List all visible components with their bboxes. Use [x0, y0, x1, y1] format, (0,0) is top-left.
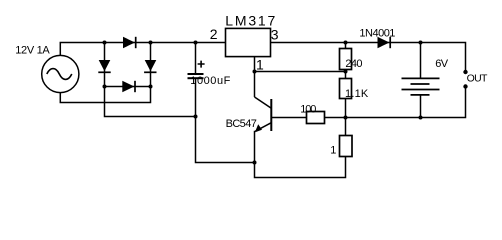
svg-text:240: 240: [345, 58, 362, 70]
wire battery bottom branch: [420, 95, 422, 118]
AC source V1 12V 1A: [42, 55, 79, 92]
wire capacitor branch lower to emitter node: [196, 78, 255, 162]
wire top rail from AC source to OUT+: [60, 43, 465, 73]
diode D4 bridge middle: [122, 81, 135, 92]
node junction emitter: [253, 161, 257, 165]
node junction top rail bridge left: [103, 41, 107, 45]
terminal OUT positive: [463, 70, 467, 74]
svg-text:100: 100: [300, 103, 316, 115]
wire base rail and bottom right rail to OUT-: [271, 87, 465, 118]
wire bridge right column: [150, 43, 152, 87]
battery B1 6V: [402, 78, 440, 95]
node junction bridge middle left: [103, 85, 107, 89]
wire bridge left column and negative rail to capacitor node: [105, 43, 196, 117]
capacitor C1 1000uF: [188, 61, 205, 79]
resistor R100: [307, 112, 325, 124]
wire ADJ node to resistor column: [255, 71, 346, 73]
svg-text:1N4001: 1N4001: [359, 28, 395, 40]
svg-text:BC547: BC547: [226, 118, 257, 130]
wire battery top branch: [420, 43, 422, 79]
node junction negative rail capacitor: [194, 115, 198, 119]
svg-text:1.1K: 1.1K: [345, 88, 369, 100]
svg-text:3: 3: [271, 26, 279, 42]
diode D2 bridge left: [98, 60, 110, 72]
wire emitter to R1 bottom: [255, 131, 346, 178]
resistor R1.1K: [340, 79, 352, 99]
diode D5 1N4001: [378, 37, 391, 48]
terminal OUT negative: [463, 84, 467, 88]
node junction top rail capacitor: [194, 41, 198, 45]
node junction R240 R1.1K: [344, 70, 348, 74]
wire capacitor branch upper: [195, 43, 197, 75]
svg-text:6V: 6V: [435, 58, 449, 70]
resistor R1: [340, 136, 353, 157]
wire AC source bottom return: [60, 87, 150, 103]
svg-text:OUT: OUT: [467, 73, 488, 85]
node junction battery bottom: [419, 116, 423, 120]
svg-text:12V 1A: 12V 1A: [15, 44, 50, 56]
resistor R240: [340, 49, 352, 70]
diode D3 bridge right: [144, 60, 156, 72]
svg-text:LM317: LM317: [225, 13, 277, 29]
node junction top rail battery: [419, 41, 423, 45]
diode D1 bridge top: [123, 37, 136, 48]
node junction top rail bridge right: [149, 41, 153, 45]
node junction bridge middle right: [149, 85, 153, 89]
node junction top rail R240: [344, 41, 348, 45]
svg-text:1000uF: 1000uF: [190, 75, 231, 87]
svg-text:2: 2: [210, 26, 218, 42]
node junction ADJ pin1: [253, 70, 257, 74]
wire bridge middle row: [105, 86, 151, 88]
node junction R1.1K R1 base rail: [344, 116, 348, 120]
regulator U1 LM317: [226, 28, 271, 56]
svg-text:1: 1: [256, 57, 264, 73]
wire LM317 pin1 down to transistor collector: [254, 57, 256, 97]
wire resistor column R240 R1.1K R1: [345, 43, 347, 157]
transistor Q1 BC547: [255, 97, 272, 132]
svg-text:1: 1: [330, 145, 336, 157]
